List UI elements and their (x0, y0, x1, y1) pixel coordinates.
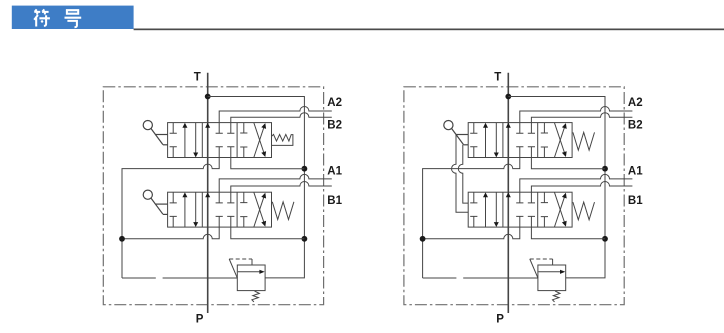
svg-text:T: T (194, 72, 201, 84)
wire: valve V3 left return with hop over center line right (423, 158, 520, 279)
junction dot at T branch (205, 94, 211, 100)
enclosure dashed boundary left block (103, 87, 323, 305)
enclosure dashed boundary right block (404, 87, 624, 305)
svg-text:T: T (494, 72, 501, 84)
svg-text:B2: B2 (327, 119, 342, 131)
svg-text:A2: A2 (628, 97, 643, 109)
svg-text:A2: A2 (327, 97, 342, 109)
wire: valve V2 right return to rail (231, 227, 305, 239)
wire: port A1 line with hop right (520, 174, 633, 192)
header title glyph 符 (34, 9, 50, 26)
wire: port B2 line with hop (231, 113, 332, 123)
lever of valve V1 (143, 121, 167, 145)
wire: pump feed to relief valve with gap right (423, 277, 538, 279)
wire: valve V4 right return to rail right (531, 227, 605, 239)
directional valve V4 body (468, 192, 572, 227)
W return spring of valve V3 (573, 132, 595, 150)
lever of valve V3 (444, 121, 468, 145)
W return spring of valve V4 (573, 202, 595, 220)
junction dot on rail at upper return right (602, 166, 608, 172)
wire: port B2 line with hop right (531, 113, 632, 123)
wire: port B1 line with hop (231, 182, 332, 193)
junction dot on right rail at lower return (302, 236, 308, 242)
wire: valve V1 left return with hop over center line (122, 158, 219, 279)
relief valve RV1 (229, 259, 265, 302)
wire: valve V1 right return to rail (231, 158, 305, 169)
svg-text:B2: B2 (628, 119, 643, 131)
svg-text:B1: B1 (327, 195, 342, 207)
lever of valve V2 (143, 190, 167, 214)
wire: valve V4 left return with hop over center line right (423, 227, 520, 239)
bracket return spring of valve V1 (272, 134, 293, 145)
relief valve RV2 (530, 259, 566, 302)
svg-text:P: P (196, 314, 204, 326)
junction dot at T branch right (505, 94, 511, 100)
header bar (12, 6, 134, 29)
directional valve V1 body (168, 123, 272, 158)
wire: pump feed to relief valve with gap (122, 277, 237, 279)
junction dot left rail lower (119, 236, 125, 242)
svg-text:P: P (496, 314, 504, 326)
header title glyph 号 (65, 10, 82, 27)
wire: valve V2 left return with hop over center line (122, 227, 219, 239)
wire: port A2 line with hop right (520, 107, 633, 123)
header rule line (134, 29, 724, 31)
wire: port A1 line with hop (219, 174, 332, 192)
wire: port A2 line with hop (219, 107, 332, 123)
wire: P-T bypass center line right (507, 73, 509, 313)
mechanical linkage rod lower with jog (458, 145, 468, 203)
mechanical linkage rod upper with jog (452, 135, 469, 213)
wire: port B1 line with hop right (531, 182, 632, 193)
W return spring of valve V2 (272, 202, 294, 220)
directional valve V3 body (468, 123, 572, 158)
junction dot on rail at lower return right (602, 236, 608, 242)
svg-text:A1: A1 (628, 165, 643, 177)
wire: P-T bypass center line (207, 73, 209, 313)
junction dot on right rail at upper return (302, 166, 308, 172)
svg-text:A1: A1 (327, 165, 342, 177)
directional valve V2 body (168, 192, 272, 227)
wire: T return branch to right rail (right block) (508, 97, 605, 278)
wire: valve V3 right return to rail right (531, 158, 605, 169)
junction dot left rail lower right (420, 236, 426, 242)
wire: T return branch to right rail (208, 97, 305, 278)
svg-text:B1: B1 (628, 195, 643, 207)
